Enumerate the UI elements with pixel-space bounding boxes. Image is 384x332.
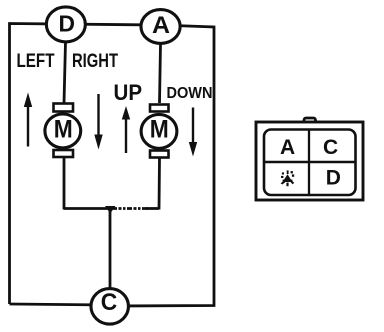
svg-text:M: M [54, 116, 73, 144]
svg-text:RIGHT: RIGHT [72, 50, 118, 72]
svg-text:A: A [280, 136, 295, 159]
svg-text:C: C [323, 136, 338, 159]
svg-text:UP: UP [114, 80, 143, 105]
svg-text:A: A [152, 12, 170, 39]
svg-text:M: M [150, 116, 169, 144]
svg-text:LEFT: LEFT [17, 50, 55, 72]
svg-text:D: D [326, 167, 341, 190]
svg-text:DOWN: DOWN [167, 85, 213, 102]
svg-text:D: D [59, 11, 76, 37]
svg-text:C: C [101, 289, 118, 316]
